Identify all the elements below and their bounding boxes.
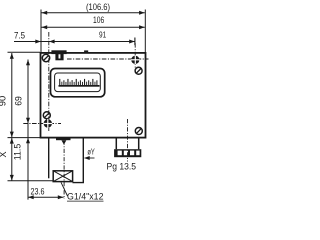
dimension 91 / 7.5 shared line <box>14 29 135 45</box>
window outer frame <box>51 69 105 97</box>
top cover plate tab <box>51 50 66 54</box>
body outline <box>41 53 146 138</box>
left top extension line <box>40 10 42 53</box>
right top extension line <box>144 10 146 53</box>
bottom-left extension line <box>8 137 41 139</box>
crossed box G1/4 connection <box>53 171 72 182</box>
bottom-left cover screw <box>43 112 50 119</box>
gland centerline <box>127 119 129 162</box>
top-right cover screw <box>135 67 142 74</box>
svg-text:91: 91 <box>99 29 106 39</box>
svg-text:G1/4"x12: G1/4"x12 <box>67 192 104 202</box>
right mounting centerline <box>134 43 136 70</box>
bottom-left mounting bolt <box>43 119 52 128</box>
dimension 90 <box>0 52 40 137</box>
top edge bump <box>84 50 88 53</box>
dimension 11.5 <box>13 124 31 200</box>
svg-text:Pg 13.5: Pg 13.5 <box>107 161 137 171</box>
port top tab <box>56 139 71 141</box>
left mounting centerline <box>48 32 50 131</box>
label G1/4"x12 with leader <box>61 182 104 201</box>
label ØY with arrow <box>84 148 95 160</box>
svg-text:23.6: 23.6 <box>31 186 45 197</box>
top mounting centerline <box>67 58 149 60</box>
dimension 23.6 <box>28 186 64 199</box>
svg-text:øY: øY <box>87 148 95 157</box>
svg-text:90: 90 <box>0 96 8 107</box>
dimension X <box>0 138 14 181</box>
top-left cover screw <box>42 54 49 61</box>
top-right mounting bolt <box>131 55 140 64</box>
svg-text:X: X <box>0 151 8 157</box>
port centerline <box>63 141 65 200</box>
dimension 106 <box>42 14 145 29</box>
port bottom extension line <box>8 180 54 182</box>
pressure port left edge <box>48 139 50 179</box>
bottom mounting centerline <box>23 123 61 125</box>
port seal triangle <box>61 140 66 144</box>
window inner frame <box>55 73 101 92</box>
setting screw block <box>55 54 63 60</box>
bottom-right cover screw <box>135 128 142 135</box>
cable gland neck <box>116 138 138 149</box>
dimension 69 <box>14 60 31 124</box>
svg-text:(106.6): (106.6) <box>86 1 110 12</box>
svg-text:11.5: 11.5 <box>13 144 23 161</box>
svg-text:106: 106 <box>93 14 104 25</box>
pressure port right edge <box>73 139 84 183</box>
scale baseline <box>59 85 100 87</box>
svg-text:7.5: 7.5 <box>14 29 25 40</box>
cable gland ribbed cap <box>114 149 141 157</box>
scale ticks <box>59 79 97 85</box>
svg-text:69: 69 <box>14 96 24 106</box>
dimension (106.6) <box>42 1 145 15</box>
